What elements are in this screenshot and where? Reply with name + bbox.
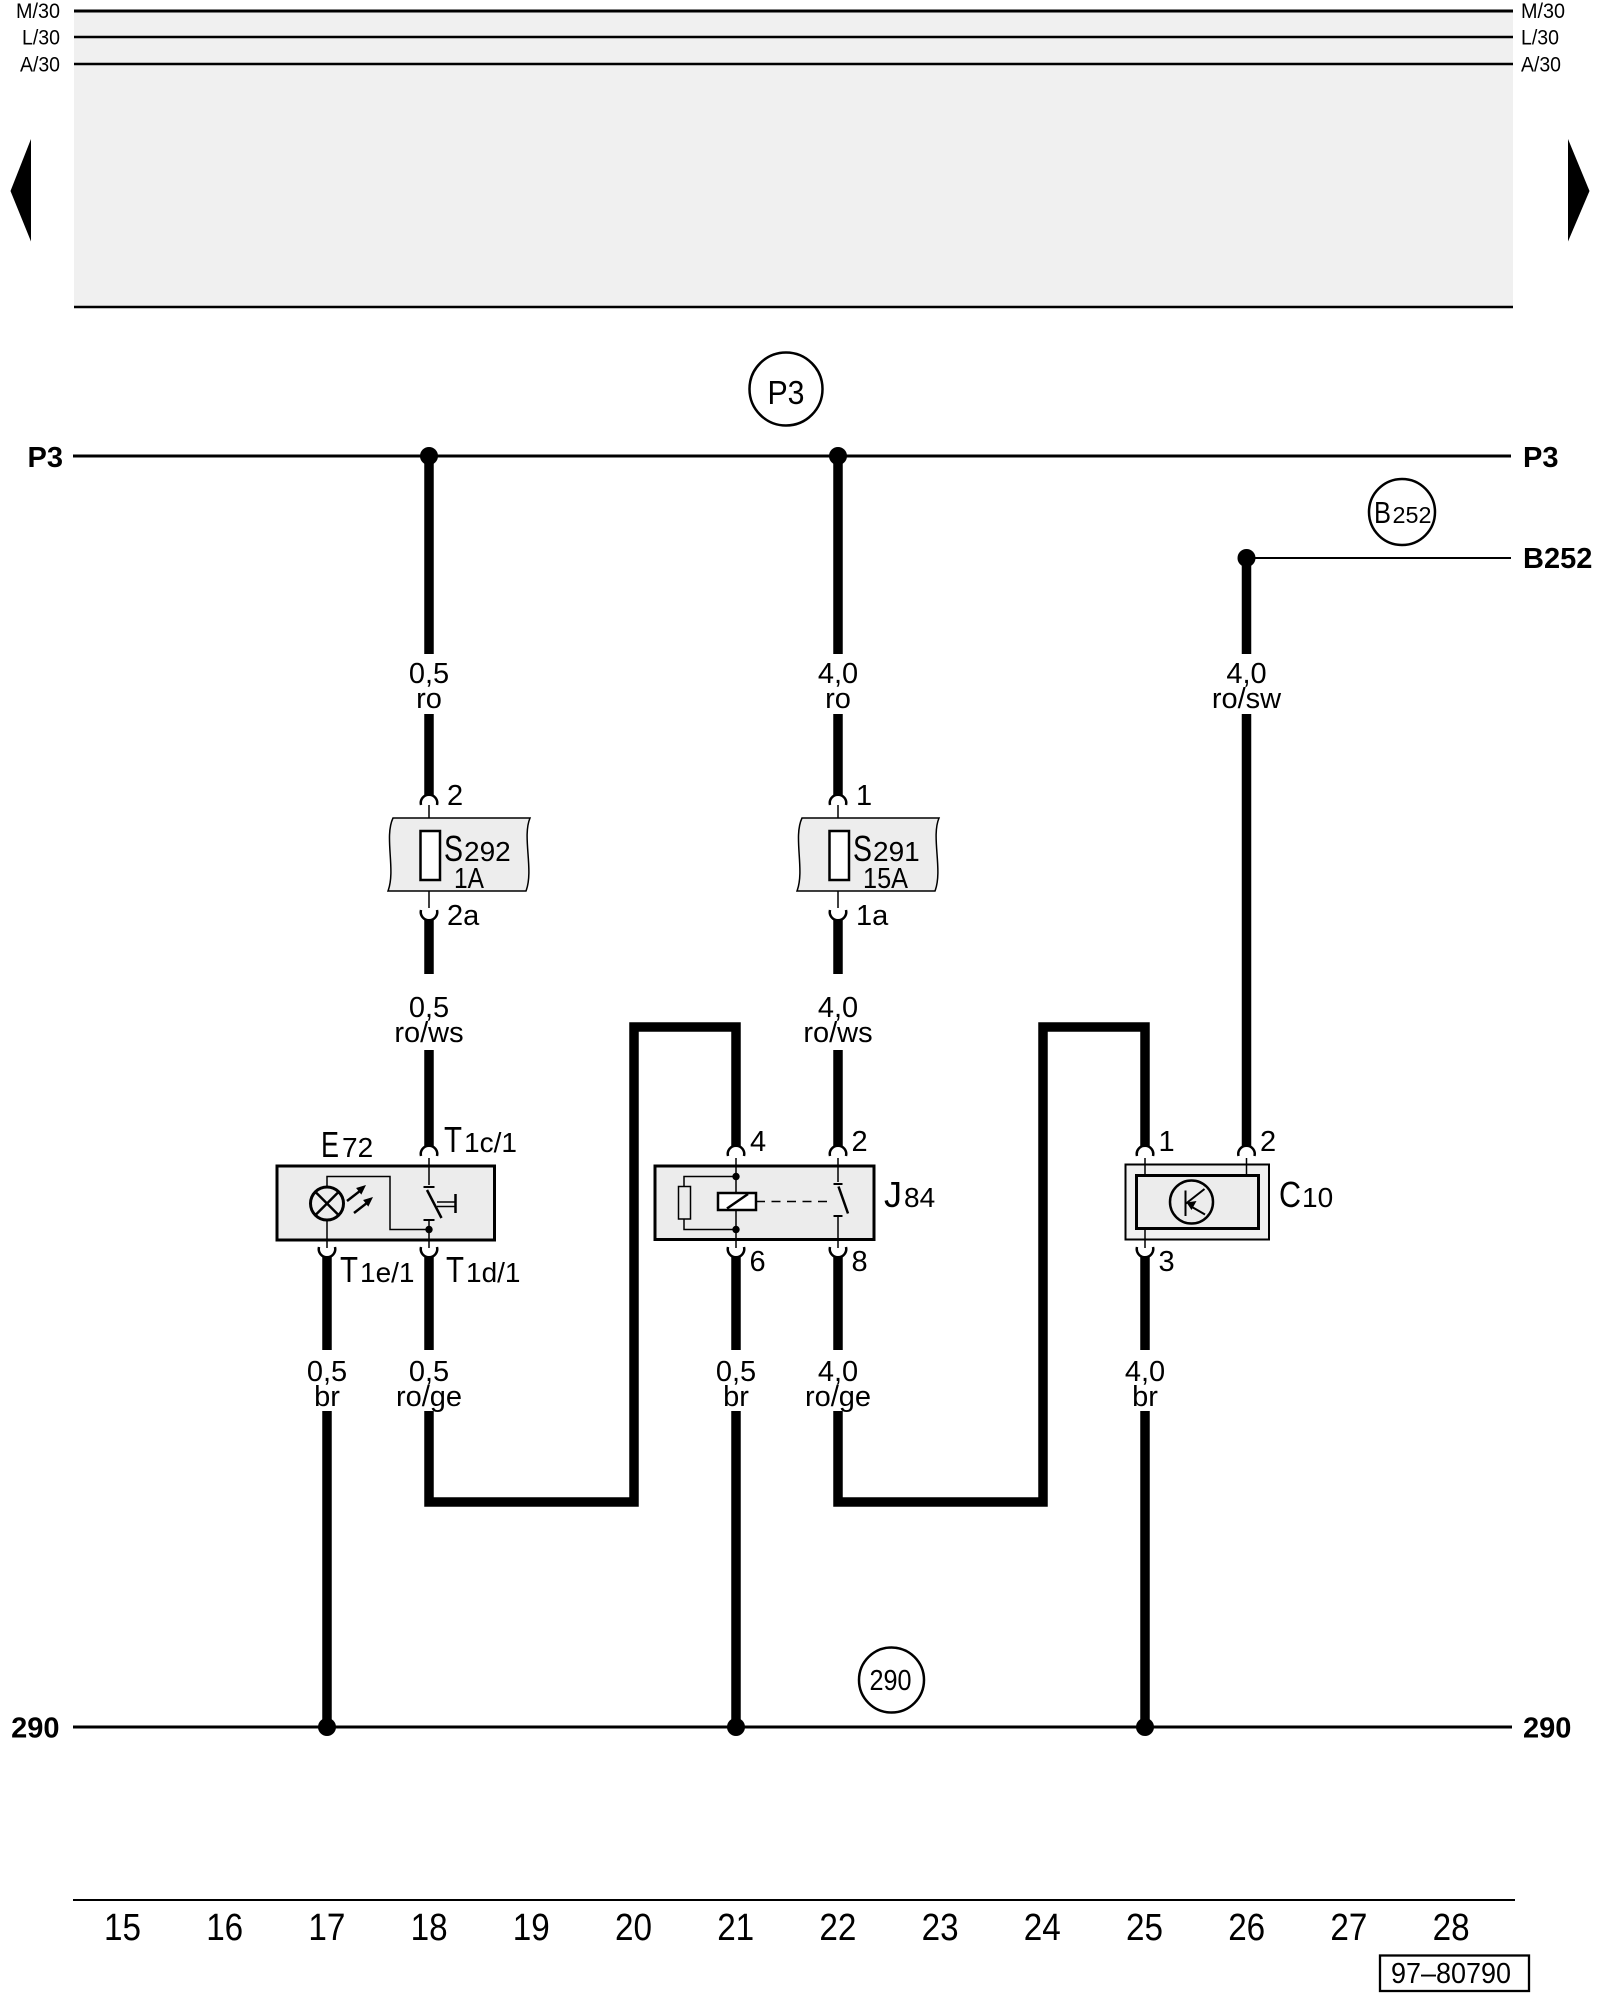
- svg-text:4: 4: [750, 1126, 766, 1158]
- grid baseline: [73, 1899, 1515, 1901]
- junction 290/col17: [318, 1718, 336, 1736]
- svg-text:ro/ws: ro/ws: [803, 1017, 872, 1049]
- junction in E72: [425, 1226, 432, 1233]
- switch symbol in E72: [424, 1158, 456, 1248]
- wire col25 C10 pin3 down: [1140, 1257, 1150, 1350]
- wire thin through fuse S291: [837, 805, 839, 908]
- wire col18 above fuse: [424, 714, 434, 795]
- svg-text:1d/1: 1d/1: [466, 1257, 521, 1288]
- svg-text:3: 3: [1159, 1246, 1175, 1278]
- node B252 reference circle: [1369, 479, 1435, 545]
- fuse S291 carrier band: [797, 818, 939, 891]
- svg-text:24: 24: [1024, 1907, 1061, 1949]
- svg-text:E: E: [321, 1124, 339, 1165]
- svg-text:25: 25: [1126, 1907, 1163, 1949]
- connector T1e/1: [319, 1247, 336, 1257]
- wire lamp to T1e/1: [326, 1220, 328, 1248]
- connector J84 pin4: [728, 1146, 744, 1156]
- connector C10 pin3: [1137, 1247, 1154, 1257]
- fuse S292 carrier band: [388, 818, 530, 891]
- svg-text:br: br: [314, 1381, 340, 1413]
- wire thin C10 pin1 into box: [1144, 1158, 1146, 1176]
- illumination arrows E72: [347, 1185, 373, 1213]
- wire thin C10 pin3: [1144, 1229, 1146, 1249]
- svg-text:97–80790: 97–80790: [1391, 1958, 1511, 1990]
- svg-text:L/30: L/30: [22, 27, 60, 50]
- junction P3/col18: [420, 447, 438, 465]
- svg-text:T: T: [340, 1249, 358, 1290]
- svg-text:T: T: [446, 1249, 464, 1290]
- fuse S292 element: [421, 831, 441, 880]
- clock symbol C10: [1170, 1181, 1213, 1224]
- svg-text:1e/1: 1e/1: [360, 1257, 415, 1288]
- svg-text:16: 16: [206, 1907, 243, 1949]
- connector T1d/1: [421, 1247, 438, 1257]
- svg-text:18: 18: [411, 1907, 448, 1949]
- band bottom edge: [74, 306, 1513, 309]
- wire col17 T1e/1 down: [322, 1257, 332, 1350]
- svg-text:2: 2: [447, 780, 463, 812]
- wire rail P3: [73, 455, 1511, 458]
- wire col22 to J84 pin2: [833, 1050, 843, 1146]
- wire col22 J84 pin8 down: [833, 1257, 843, 1350]
- svg-text:A/30: A/30: [1521, 54, 1561, 77]
- drawing number box 97-80790: [1380, 1956, 1529, 1992]
- svg-text:27: 27: [1330, 1907, 1367, 1949]
- wire elbow J84 pin8 to C10 pin1: [838, 1027, 1145, 1502]
- connector J84 pin8: [830, 1247, 846, 1257]
- wire elbow T1d/1 to J84 pin4: [429, 1027, 736, 1502]
- svg-text:A/30: A/30: [20, 54, 60, 77]
- wire col21 to 290: [731, 1411, 741, 1727]
- svg-text:2: 2: [1260, 1126, 1276, 1158]
- svg-text:1A: 1A: [454, 863, 485, 895]
- wire col22 P3 to fuse S291: [833, 456, 843, 654]
- wire thin through fuse S292: [428, 805, 430, 908]
- wire col26 to C10 pin2: [1242, 714, 1252, 1146]
- component C10 clock: [1126, 1165, 1270, 1240]
- node P3 reference circle: [750, 353, 823, 426]
- wire col17 to 290: [322, 1411, 332, 1727]
- svg-text:252: 252: [1393, 502, 1432, 528]
- connector pin 2 of S292: [421, 795, 438, 805]
- svg-text:290: 290: [1523, 1713, 1571, 1745]
- svg-text:8: 8: [852, 1246, 868, 1278]
- junction 290/col25: [1136, 1718, 1154, 1736]
- connector J84 pin2: [830, 1146, 846, 1156]
- svg-text:ro/ws: ro/ws: [394, 1017, 463, 1049]
- svg-text:6: 6: [750, 1246, 766, 1278]
- svg-text:ro: ro: [416, 683, 442, 715]
- svg-text:T: T: [444, 1119, 462, 1160]
- junction J84 coil bottom: [732, 1226, 739, 1233]
- svg-text:br: br: [723, 1381, 749, 1413]
- relay armature J84: [718, 1193, 756, 1210]
- wire rail B252: [1247, 557, 1512, 559]
- svg-text:M/30: M/30: [16, 0, 60, 23]
- svg-text:17: 17: [308, 1907, 345, 1949]
- component E72 switch/lamp unit: [277, 1166, 495, 1240]
- svg-text:1c/1: 1c/1: [464, 1127, 517, 1158]
- junction 290/col21: [727, 1718, 745, 1736]
- right continuation arrow: [1568, 139, 1590, 242]
- fuse S291 element: [830, 831, 850, 880]
- svg-text:2a: 2a: [447, 900, 480, 932]
- svg-text:15: 15: [104, 1907, 141, 1949]
- node 290 reference circle: [859, 1648, 924, 1713]
- svg-text:ro: ro: [825, 683, 851, 715]
- wire internal lamp to switch contact: [327, 1177, 429, 1230]
- wire col18 T1d/1 down: [424, 1257, 434, 1350]
- connector J84 pin6: [728, 1247, 744, 1257]
- lamp symbol in E72: [311, 1187, 344, 1220]
- wire col22 below fuse: [833, 920, 843, 974]
- svg-text:P3: P3: [1523, 442, 1558, 474]
- wire col25 to 290: [1140, 1411, 1150, 1727]
- connector C10 pin2: [1238, 1146, 1255, 1156]
- junction J84 coil top: [732, 1173, 739, 1180]
- svg-text:19: 19: [513, 1907, 550, 1949]
- svg-text:21: 21: [717, 1907, 754, 1949]
- connector pin 1 of S291: [830, 795, 847, 805]
- component J84 relay: [655, 1166, 874, 1240]
- svg-text:290: 290: [11, 1713, 59, 1745]
- junction B252/col26: [1238, 549, 1256, 567]
- relay coil J84: [679, 1177, 737, 1230]
- grid numbers 15-28: [104, 1907, 1470, 1949]
- connector pin 2a of S292: [421, 910, 438, 920]
- svg-text:B: B: [1374, 495, 1391, 530]
- wire col18 below fuse: [424, 920, 434, 974]
- svg-text:J: J: [884, 1174, 902, 1215]
- relay switch J84: [834, 1158, 849, 1248]
- connector C10 pin1: [1137, 1146, 1154, 1156]
- wire col21 J84 pin6 down: [731, 1257, 741, 1350]
- svg-text:290: 290: [870, 1665, 912, 1697]
- svg-text:C: C: [1279, 1174, 1301, 1215]
- bus band 30: [74, 10, 1513, 307]
- svg-text:P3: P3: [768, 374, 805, 411]
- svg-text:1: 1: [1159, 1126, 1175, 1158]
- svg-text:br: br: [1132, 1381, 1158, 1413]
- wire thin C10 pin2 into box: [1246, 1158, 1248, 1176]
- wire A/30: [74, 63, 1513, 66]
- svg-text:1a: 1a: [856, 900, 889, 932]
- left continuation arrow: [11, 139, 32, 242]
- svg-text:28: 28: [1433, 1907, 1470, 1949]
- junction P3/col22: [829, 447, 847, 465]
- svg-text:84: 84: [904, 1182, 935, 1213]
- svg-text:23: 23: [922, 1907, 959, 1949]
- svg-text:15A: 15A: [863, 863, 909, 895]
- svg-text:2: 2: [852, 1126, 868, 1158]
- svg-text:26: 26: [1228, 1907, 1265, 1949]
- wire col22 above fuse: [833, 714, 843, 795]
- svg-text:72: 72: [342, 1132, 373, 1163]
- connector pin 1a of S291: [830, 910, 847, 920]
- svg-text:B252: B252: [1523, 543, 1592, 575]
- svg-text:20: 20: [615, 1907, 652, 1949]
- wire L/30: [74, 36, 1513, 39]
- svg-text:ro/ge: ro/ge: [805, 1381, 871, 1413]
- svg-text:ro/ge: ro/ge: [396, 1381, 462, 1413]
- svg-text:10: 10: [1302, 1182, 1333, 1213]
- svg-text:M/30: M/30: [1521, 0, 1565, 23]
- wire thin J84 pin4 to pin6: [735, 1158, 737, 1248]
- wire M/30: [74, 10, 1513, 13]
- wire col18 P3 to fuse S292: [424, 456, 434, 654]
- wire rail 290: [73, 1726, 1512, 1729]
- dashed actuation line J84: [756, 1201, 833, 1203]
- svg-text:22: 22: [819, 1907, 856, 1949]
- wire col26 B252 to C10 pin2 upper: [1242, 558, 1252, 654]
- svg-text:1: 1: [856, 780, 872, 812]
- connector T1c/1: [421, 1146, 438, 1156]
- svg-text:P3: P3: [28, 442, 63, 474]
- svg-text:ro/sw: ro/sw: [1212, 683, 1282, 715]
- wire col18 to E72: [424, 1050, 434, 1146]
- svg-text:L/30: L/30: [1521, 27, 1559, 50]
